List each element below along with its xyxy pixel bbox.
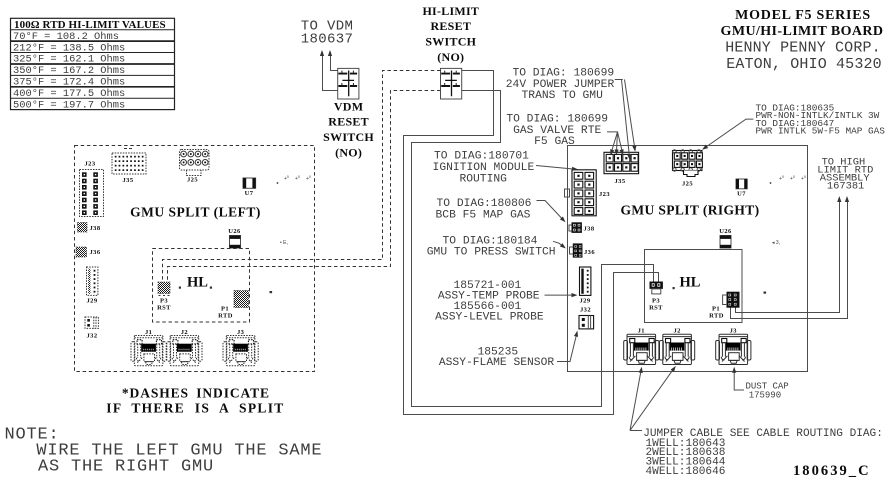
svg-text:24V POWER JUMPER: 24V POWER JUMPER bbox=[506, 79, 615, 91]
svg-text:PWR INTLK 5W-F5 MAP GAS: PWR INTLK 5W-F5 MAP GAS bbox=[756, 126, 886, 137]
svg-text:TO DIAG:180806: TO DIAG:180806 bbox=[437, 198, 532, 210]
svg-text:RESET: RESET bbox=[430, 19, 471, 33]
svg-text:ROUTING: ROUTING bbox=[459, 174, 507, 186]
svg-text:GMU SPLIT (LEFT): GMU SPLIT (LEFT) bbox=[130, 205, 261, 220]
svg-text:F5 GAS: F5 GAS bbox=[534, 136, 575, 148]
svg-text:P1: P1 bbox=[712, 306, 720, 313]
svg-text:BCB F5 MAP GAS: BCB F5 MAP GAS bbox=[436, 210, 531, 222]
svg-text:70°F = 108.2 Ohms: 70°F = 108.2 Ohms bbox=[13, 31, 119, 43]
svg-text:RST: RST bbox=[157, 305, 171, 312]
svg-text:SWITCH: SWITCH bbox=[323, 130, 374, 144]
svg-text:J29: J29 bbox=[580, 298, 591, 305]
svg-text:◂ 3,: ◂ 3, bbox=[772, 240, 780, 246]
svg-text:ASSY-FLAME SENSOR: ASSY-FLAME SENSOR bbox=[439, 357, 554, 369]
svg-text:EATON, OHIO 45320: EATON, OHIO 45320 bbox=[726, 56, 882, 73]
svg-text:TRANS TO GMU: TRANS TO GMU bbox=[522, 90, 603, 102]
svg-text:180637: 180637 bbox=[301, 32, 354, 48]
svg-text:4WELL:180646: 4WELL:180646 bbox=[646, 466, 726, 478]
svg-text:J2: J2 bbox=[181, 329, 188, 336]
svg-text:RTD: RTD bbox=[218, 313, 233, 320]
svg-text:J1: J1 bbox=[145, 329, 152, 336]
svg-text:AS THE RIGHT GMU: AS THE RIGHT GMU bbox=[38, 458, 214, 477]
svg-text:400°F = 177.5 Ohms: 400°F = 177.5 Ohms bbox=[13, 88, 125, 100]
svg-text:J1: J1 bbox=[638, 327, 645, 334]
svg-text:100Ω RTD HI-LIMIT VALUES: 100Ω RTD HI-LIMIT VALUES bbox=[14, 19, 166, 31]
svg-text:167381: 167381 bbox=[827, 181, 864, 193]
svg-text:U7: U7 bbox=[737, 191, 746, 198]
svg-text:J32: J32 bbox=[580, 307, 591, 314]
svg-text:VDM: VDM bbox=[334, 100, 363, 114]
svg-text:U26: U26 bbox=[719, 228, 732, 235]
svg-text:J23: J23 bbox=[599, 191, 610, 198]
svg-text:P3: P3 bbox=[652, 298, 660, 305]
svg-text:TO DIAG: 180699: TO DIAG: 180699 bbox=[512, 68, 614, 80]
svg-text:J25: J25 bbox=[682, 181, 693, 188]
svg-text:J38: J38 bbox=[584, 226, 595, 233]
svg-text:P3: P3 bbox=[160, 298, 168, 305]
svg-text:GMU TO PRESS SWITCH: GMU TO PRESS SWITCH bbox=[427, 246, 556, 258]
svg-text:HI-LIMIT: HI-LIMIT bbox=[422, 4, 479, 18]
svg-text:175990: 175990 bbox=[749, 390, 781, 400]
svg-text:P1: P1 bbox=[221, 306, 229, 313]
svg-text:GMU/HI-LIMIT BOARD: GMU/HI-LIMIT BOARD bbox=[721, 24, 884, 39]
svg-text:RESET: RESET bbox=[328, 115, 369, 129]
svg-text:ASSY-LEVEL PROBE: ASSY-LEVEL PROBE bbox=[435, 312, 544, 324]
svg-text:TO DIAG: 180699: TO DIAG: 180699 bbox=[506, 114, 608, 126]
svg-text:375°F = 172.4 Ohms: 375°F = 172.4 Ohms bbox=[13, 77, 125, 89]
svg-text:J23: J23 bbox=[85, 161, 96, 168]
svg-text:(NO): (NO) bbox=[437, 50, 464, 64]
svg-text:J38: J38 bbox=[90, 225, 101, 232]
svg-text:325°F = 162.1 Ohms: 325°F = 162.1 Ohms bbox=[13, 54, 125, 66]
svg-text:(NO): (NO) bbox=[335, 146, 362, 160]
svg-text:*DASHES INDICATE: *DASHES INDICATE bbox=[122, 386, 270, 401]
svg-text:J32: J32 bbox=[87, 333, 98, 340]
svg-text:350°F = 167.2 Ohms: 350°F = 167.2 Ohms bbox=[13, 65, 125, 77]
svg-text:J35: J35 bbox=[615, 178, 626, 185]
svg-text:GAS VALVE RTE: GAS VALVE RTE bbox=[513, 125, 601, 137]
svg-text:U26: U26 bbox=[228, 228, 241, 235]
svg-text:J25: J25 bbox=[187, 177, 198, 184]
svg-text:GMU SPLIT (RIGHT): GMU SPLIT (RIGHT) bbox=[621, 203, 760, 218]
svg-text:J35: J35 bbox=[123, 177, 134, 184]
svg-text:TO DIAG:180701: TO DIAG:180701 bbox=[434, 151, 529, 163]
svg-text:J3: J3 bbox=[237, 329, 245, 336]
svg-text:HL: HL bbox=[187, 275, 208, 291]
svg-text:J2: J2 bbox=[673, 327, 680, 334]
svg-text:J36: J36 bbox=[90, 249, 101, 256]
svg-text:SWITCH: SWITCH bbox=[425, 34, 476, 48]
svg-text:500°F = 197.7 Ohms: 500°F = 197.7 Ohms bbox=[13, 99, 125, 111]
svg-text:RTD: RTD bbox=[709, 313, 724, 320]
svg-text:U7: U7 bbox=[245, 190, 254, 197]
svg-text:HENNY PENNY CORP.: HENNY PENNY CORP. bbox=[725, 40, 881, 57]
svg-text:J29: J29 bbox=[87, 298, 98, 305]
svg-text:J36: J36 bbox=[584, 249, 595, 256]
svg-text:RST: RST bbox=[649, 305, 663, 312]
svg-text:HL: HL bbox=[680, 275, 701, 291]
svg-text:MODEL F5 SERIES: MODEL F5 SERIES bbox=[735, 8, 871, 23]
svg-text:IF THERE IS A SPLIT: IF THERE IS A SPLIT bbox=[106, 401, 284, 416]
svg-text:J3: J3 bbox=[730, 327, 738, 334]
svg-text:• E,: • E, bbox=[280, 240, 288, 246]
svg-text:IGNITION MODULE: IGNITION MODULE bbox=[433, 162, 535, 174]
svg-text:212°F = 138.5 Ohms: 212°F = 138.5 Ohms bbox=[13, 42, 125, 54]
svg-text:180639_C: 180639_C bbox=[793, 463, 871, 479]
